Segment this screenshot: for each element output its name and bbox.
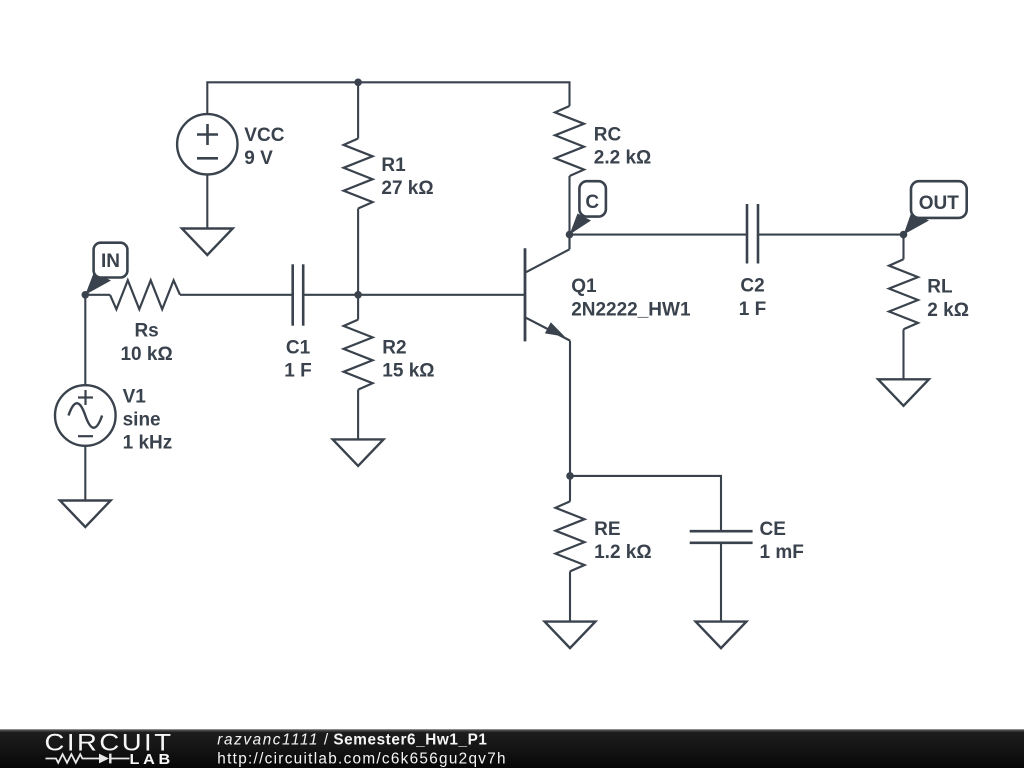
- svg-text:C: C: [585, 192, 599, 213]
- voltage source V1 sine: [55, 385, 116, 446]
- svg-text:1 F: 1 F: [739, 299, 766, 320]
- svg-text:VCC: VCC: [244, 125, 284, 146]
- svg-text:1 F: 1 F: [284, 361, 311, 382]
- svg-text:V1: V1: [123, 386, 147, 407]
- node flag OUT: [904, 181, 967, 234]
- svg-text:15 kΩ: 15 kΩ: [382, 361, 434, 382]
- wire C2 to OUT node: [758, 234, 904, 236]
- junction node IN: [82, 291, 90, 299]
- junction node at top rail and R1: [354, 79, 362, 87]
- wire R2 top lead: [357, 295, 359, 320]
- svg-text:RL: RL: [927, 277, 953, 298]
- svg-text:1 kHz: 1 kHz: [123, 433, 173, 454]
- svg-text:OUT: OUT: [919, 193, 960, 214]
- svg-text:razvanc1111 / Semester6_Hw1_P1: razvanc1111 / Semester6_Hw1_P1: [217, 732, 487, 749]
- ground below V1: [60, 501, 111, 528]
- node flag C: [570, 181, 606, 234]
- resistor RC: [555, 106, 584, 176]
- ground below RE: [545, 622, 596, 649]
- resistor RE: [556, 501, 585, 571]
- wire VCC to ground: [206, 174, 208, 228]
- wire collector node to C2: [570, 234, 748, 236]
- node flag IN: [85, 243, 127, 295]
- junction node OUT: [900, 231, 908, 239]
- wire RE to ground: [569, 571, 571, 621]
- wire R1 top lead: [357, 82, 359, 138]
- svg-text:IN: IN: [101, 251, 120, 272]
- resistor R2: [344, 320, 373, 390]
- svg-text:LAB: LAB: [130, 751, 175, 768]
- svg-text:1 mF: 1 mF: [760, 542, 804, 563]
- svg-text:2.2 kΩ: 2.2 kΩ: [594, 148, 652, 169]
- wire Rs to C1: [180, 294, 293, 296]
- wire emitter down to node E: [569, 341, 571, 476]
- wire node E to CE branch: [570, 476, 721, 531]
- resistor RL: [889, 259, 918, 329]
- svg-text:C2: C2: [740, 276, 764, 297]
- svg-text:10 kΩ: 10 kΩ: [120, 344, 172, 365]
- svg-text:http://circuitlab.com/c6k656gu: http://circuitlab.com/c6k656gu2qv7h: [217, 750, 507, 767]
- svg-text:RC: RC: [594, 124, 622, 145]
- ground below CE: [696, 622, 747, 649]
- wire RL to ground: [902, 329, 904, 379]
- junction node emitter E: [566, 472, 574, 480]
- svg-text:Q1: Q1: [571, 276, 597, 297]
- svg-text:2N2222_HW1: 2N2222_HW1: [571, 299, 691, 320]
- wire top rail VCC to RC: [207, 82, 569, 114]
- wire CE to ground: [720, 543, 722, 622]
- resistor R1: [344, 139, 373, 209]
- resistor Rs: [110, 280, 180, 309]
- svg-text:Rs: Rs: [134, 320, 158, 341]
- svg-text:9 V: 9 V: [244, 148, 273, 169]
- svg-text:2 kΩ: 2 kΩ: [927, 300, 969, 321]
- wire V1 to ground: [84, 446, 86, 501]
- wire IN node to Rs: [85, 294, 110, 296]
- capacitor C2 plates: [746, 204, 749, 264]
- wire RL top lead: [902, 235, 904, 260]
- capacitor CE plates: [690, 530, 753, 533]
- logo resistor squiggle: [46, 754, 100, 763]
- wire node E to RE: [569, 476, 571, 502]
- svg-text:27 kΩ: 27 kΩ: [381, 178, 433, 199]
- ground below R2: [333, 439, 384, 466]
- wire RC bottom lead to collector node: [568, 176, 570, 235]
- voltage source VCC: [177, 114, 237, 174]
- capacitor C1 plates: [291, 264, 294, 325]
- wire IN node down to V1: [84, 295, 86, 385]
- svg-text:C1: C1: [286, 338, 311, 359]
- svg-text:R1: R1: [381, 155, 406, 176]
- svg-text:1.2 kΩ: 1.2 kΩ: [594, 542, 652, 563]
- svg-text:RE: RE: [594, 519, 620, 540]
- svg-text:CE: CE: [760, 519, 786, 540]
- footer bar: [0, 729, 1024, 768]
- svg-text:sine: sine: [123, 409, 161, 430]
- transistor Q1: [525, 235, 570, 342]
- wire R2 to ground: [357, 390, 359, 440]
- logo diode symbol: [99, 754, 109, 764]
- ground below VCC: [182, 229, 233, 256]
- svg-text:R2: R2: [382, 338, 406, 359]
- junction node collector C: [566, 231, 574, 239]
- wire C1 to Q1 base: [303, 294, 524, 296]
- wire R1 bottom lead: [357, 209, 359, 295]
- ground below RL: [878, 379, 929, 406]
- junction node at base row and R2: [354, 291, 362, 299]
